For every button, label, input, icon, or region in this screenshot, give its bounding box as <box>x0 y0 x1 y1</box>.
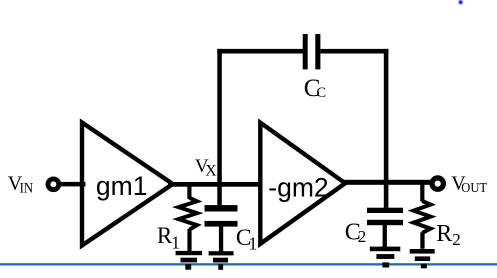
op-amp U2 (-gm2) <box>260 123 345 244</box>
svg-text:1: 1 <box>249 233 258 253</box>
svg-text:2: 2 <box>452 230 461 249</box>
label R2 <box>436 221 460 249</box>
capacitor C1 <box>205 205 238 252</box>
wire top-right horizontal (CC to output branch) <box>320 49 388 54</box>
label CC <box>304 75 326 102</box>
wire right vertical (CC down to output node and C2) <box>384 49 389 208</box>
blue dot <box>459 0 463 4</box>
blue divider line <box>0 263 497 265</box>
node X label <box>195 156 217 180</box>
svg-text:X: X <box>205 163 216 180</box>
svg-text:1: 1 <box>171 233 180 253</box>
ground (C2) <box>370 247 401 268</box>
svg-text:R: R <box>436 221 452 247</box>
label C2 <box>345 219 367 246</box>
label VIN <box>8 173 34 197</box>
label R1 <box>157 223 180 253</box>
svg-text:IN: IN <box>20 181 34 197</box>
ground (R2) <box>410 249 435 268</box>
op-amp gm1 <box>82 123 173 246</box>
ground (R1) <box>176 251 203 270</box>
terminal VOUT <box>432 178 443 189</box>
capacitor CC <box>303 34 321 69</box>
resistor R1 <box>179 184 197 252</box>
wire node X (gm1 out to gm2 in) <box>168 182 262 187</box>
svg-text:-gm2: -gm2 <box>268 172 328 202</box>
terminal VIN <box>48 179 59 190</box>
resistor R2 <box>414 182 431 249</box>
svg-text:OUT: OUT <box>461 180 487 195</box>
label C1 <box>236 225 257 254</box>
wire top-left horizontal (node X to CC) <box>217 49 303 54</box>
wire left vertical (node X up to CC, down to C1) <box>217 49 222 206</box>
svg-text:gm1: gm1 <box>96 171 148 201</box>
capacitor C2 <box>367 208 403 247</box>
wire input <box>59 182 86 187</box>
wire output (gm2 out to VOUT) <box>344 180 431 185</box>
ground (C1) <box>209 251 234 270</box>
svg-text:C: C <box>316 85 326 101</box>
label VOUT <box>451 173 487 195</box>
svg-text:2: 2 <box>358 227 367 246</box>
